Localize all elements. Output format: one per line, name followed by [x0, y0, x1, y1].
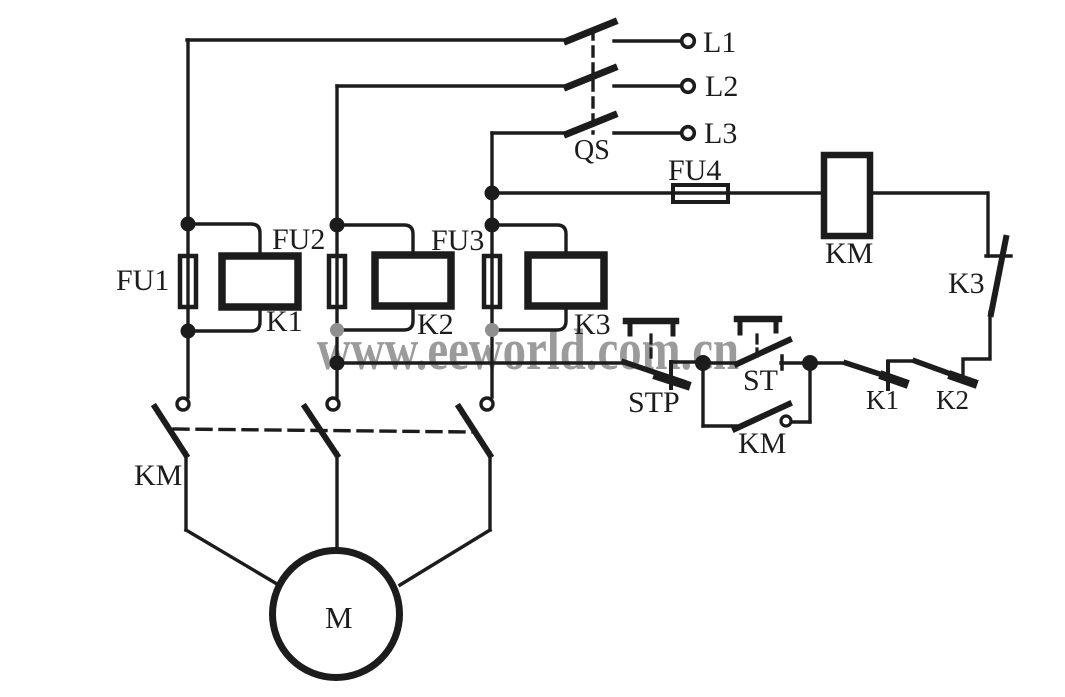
- wire L2 top horizontal: [337, 84, 568, 87]
- wire KM aux branch right vertical: [808, 363, 811, 422]
- node phase3 bottom junction: [485, 323, 499, 337]
- pushbutton STP head right leg: [671, 321, 676, 334]
- terminal circle L2: [682, 80, 695, 93]
- svg-text:QS: QS: [574, 135, 610, 166]
- pushbutton STP fixed terminal tick: [669, 362, 673, 388]
- terminal circle L1: [682, 35, 695, 48]
- wire KM aux branch bottom left: [703, 424, 736, 427]
- pushbutton STP dashed stem: [649, 335, 652, 363]
- pushbutton ST head left leg: [738, 319, 743, 333]
- node phase3 FU4 tap junction: [485, 186, 500, 201]
- node phase1 top junction: [181, 217, 196, 232]
- svg-text:K3: K3: [948, 267, 985, 300]
- fuse FU3: [484, 256, 500, 307]
- wire control line FU4 feed: [492, 191, 824, 194]
- contact KM aux fixed terminal circle: [781, 416, 791, 426]
- svg-text:FU3: FU3: [431, 224, 484, 257]
- wire L1 vertical drop (phase 1 bus): [186, 40, 189, 397]
- svg-text:KM: KM: [134, 459, 182, 492]
- pushbutton STP blade contact tip: [658, 376, 686, 385]
- relay coil K3: [528, 255, 604, 306]
- pushbutton ST head bar: [737, 316, 779, 323]
- wire KM main pole3 down: [488, 453, 491, 530]
- wire L3 vertical drop (phase 3 bus): [490, 133, 493, 397]
- contact KM main pole1 blade: [155, 407, 186, 455]
- svg-text:M: M: [325, 600, 353, 635]
- pushbutton STP NC blade: [624, 362, 683, 382]
- contactor coil KM: [824, 155, 870, 236]
- wire L2 terminal lead: [614, 84, 681, 87]
- contact KM main pole2 blade: [305, 407, 337, 455]
- contact KM main pole1 fixed terminal circle: [177, 398, 189, 410]
- node control tap junction: [330, 356, 345, 371]
- svg-text:ST: ST: [743, 364, 778, 397]
- pushbutton ST NO blade: [737, 340, 789, 364]
- pushbutton ST dashed stem: [755, 335, 758, 356]
- relay coil K2: [375, 255, 451, 306]
- contact K3 NC blade: [991, 238, 1006, 314]
- svg-text:K1: K1: [866, 385, 899, 415]
- wire L1 top horizontal: [187, 38, 568, 41]
- wire K3 contact down: [963, 312, 990, 378]
- switch QS pole 2 blade: [567, 68, 614, 87]
- wire KM main pole1 down: [184, 453, 187, 530]
- svg-text:www.eeworld.com.cn: www.eeworld.com.cn: [317, 317, 739, 382]
- contact K2 NC blade: [915, 361, 970, 381]
- wire L2 vertical drop (phase 2 bus): [335, 86, 338, 397]
- node phase1 bottom junction: [181, 324, 196, 339]
- fuse FU4: [673, 185, 728, 202]
- svg-text:L2: L2: [705, 70, 738, 103]
- wire KM coil to K3 contact: [870, 193, 988, 256]
- wire L1 terminal lead: [614, 39, 681, 42]
- contact KM main pole2 fixed terminal circle: [327, 398, 339, 410]
- wire K2 coil loop bottom: [337, 306, 413, 330]
- wire STP to node A: [671, 360, 703, 363]
- svg-text:STP: STP: [628, 386, 680, 419]
- wire K1 to K2: [888, 359, 916, 362]
- fuse FU2: [329, 256, 345, 307]
- contact K1 NC blade: [846, 363, 901, 381]
- pushbutton STP head left leg: [628, 321, 633, 334]
- wire K1 coil loop top: [188, 224, 260, 256]
- fuse FU1: [180, 256, 196, 307]
- pushbutton ST head right leg: [774, 319, 779, 331]
- contact KM main pole3 fixed terminal circle: [481, 398, 493, 410]
- wire node A to ST: [703, 361, 740, 364]
- wire KM aux branch bottom right: [792, 420, 810, 423]
- svg-text:L1: L1: [703, 26, 736, 59]
- svg-text:K2: K2: [936, 385, 969, 415]
- wire control line left section: [337, 361, 625, 364]
- wire KM aux branch left vertical: [701, 363, 704, 426]
- svg-text:L3: L3: [704, 117, 737, 150]
- contact K2 blade tip: [953, 376, 973, 383]
- node phase3 top junction: [485, 218, 500, 233]
- switch QS mechanical dashed link: [591, 30, 594, 133]
- switch QS pole 3 blade: [567, 115, 614, 134]
- node phase2 top junction: [330, 218, 345, 233]
- pushbutton STP head bar: [626, 318, 676, 325]
- contact KM main mechanical dashed link: [174, 429, 474, 432]
- wire motor lead 3 diagonal: [400, 530, 490, 585]
- contact K1 blade tip: [884, 376, 904, 383]
- svg-text:FU1: FU1: [116, 264, 169, 297]
- wire K1 coil loop bottom: [188, 307, 260, 331]
- contact KM main pole3 blade: [459, 407, 490, 455]
- contact KM aux NO blade: [735, 404, 789, 429]
- wire ST to node B: [781, 361, 810, 364]
- node phase2 bottom junction: [330, 323, 344, 337]
- switch QS pole 1 blade: [567, 22, 614, 41]
- node B (ST right junction): [802, 355, 818, 371]
- relay coil K1: [222, 256, 298, 307]
- svg-text:KM: KM: [825, 237, 873, 270]
- pushbutton ST fixed terminal tick: [780, 356, 784, 369]
- contact K1 fixed terminal tick: [886, 362, 890, 389]
- wire L3 top horizontal: [492, 131, 568, 134]
- svg-text:KM: KM: [738, 427, 786, 460]
- wire K3 coil loop top: [492, 225, 566, 255]
- contact K3 fixed terminal tick: [986, 254, 1011, 257]
- motor M circle: [273, 551, 400, 678]
- svg-text:K3: K3: [574, 308, 611, 341]
- terminal circle L3: [682, 127, 695, 140]
- wire motor lead 2 vertical: [335, 453, 338, 550]
- node A (ST left junction): [695, 355, 711, 371]
- svg-text:K1: K1: [266, 305, 303, 338]
- wire K3 coil loop bottom: [492, 306, 566, 330]
- svg-text:FU4: FU4: [668, 154, 721, 187]
- wire motor lead 1 diagonal: [186, 530, 277, 584]
- wire K2 coil loop top: [337, 225, 413, 255]
- svg-text:FU2: FU2: [272, 223, 325, 256]
- wire node B to K1: [810, 361, 848, 364]
- wire L3 terminal lead: [614, 131, 681, 134]
- svg-text:K2: K2: [417, 308, 454, 341]
